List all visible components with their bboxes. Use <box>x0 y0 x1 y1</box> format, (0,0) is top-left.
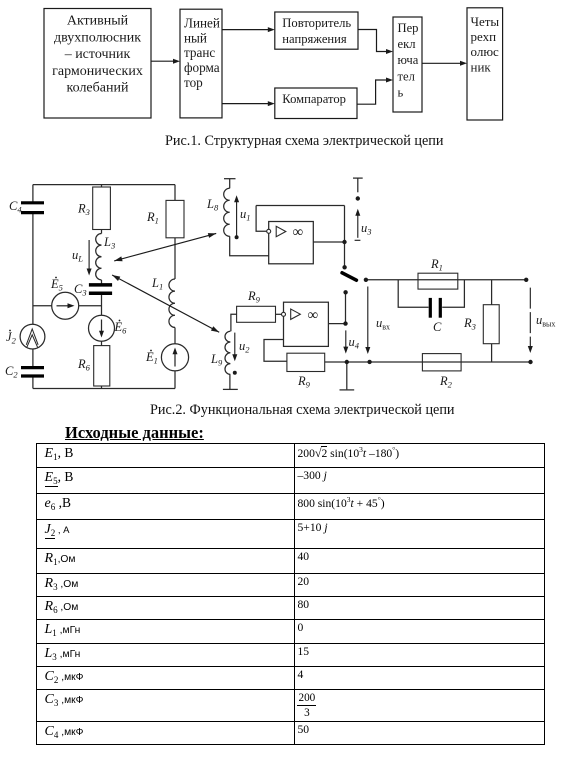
label u_out <box>536 313 555 329</box>
wire 3->5 <box>358 30 388 52</box>
label L9 <box>210 352 223 368</box>
arrow inside E1 <box>173 348 178 355</box>
wire arrow 5->6 <box>422 62 462 64</box>
svg-text:гармонических: гармонических <box>52 64 143 79</box>
block: voltage follower <box>275 12 358 49</box>
block: switch <box>393 17 422 112</box>
label R6 <box>77 357 91 373</box>
svg-text:двухполюсник: двухполюсник <box>54 31 141 46</box>
inductor L3 <box>96 234 102 280</box>
svg-text:uвх: uвх <box>376 316 390 332</box>
node dot u1 <box>235 235 239 239</box>
resistor R6 <box>94 346 110 386</box>
wire U1 feedback top <box>256 205 344 207</box>
svg-text:C4: C4 <box>9 199 22 215</box>
wire bottom rail left loop <box>33 388 175 390</box>
label C2 <box>5 364 18 380</box>
resistor R3 right <box>483 305 499 344</box>
wire arrow 2->3 <box>222 29 270 31</box>
label C3 <box>74 282 87 298</box>
wire R3 branch <box>491 280 493 362</box>
resistor R2 <box>422 354 461 371</box>
svg-text:R1: R1 <box>146 210 159 226</box>
svg-text:uвых: uвых <box>536 313 555 329</box>
ground under u4 node <box>340 362 355 390</box>
resistor R9 lower <box>287 353 325 371</box>
resistor R1 left <box>166 200 184 237</box>
label R3 left <box>77 202 90 218</box>
wire R9 to U2 input <box>276 313 282 315</box>
svg-text:uL: uL <box>72 248 83 264</box>
svg-text:E5: E5 <box>50 277 63 293</box>
wire E5 branch <box>33 305 102 307</box>
voltage arrow u2 <box>234 333 236 357</box>
svg-text:екл: екл <box>398 37 416 51</box>
svg-text:R1: R1 <box>430 257 443 273</box>
wire 4->5 <box>357 80 388 104</box>
svg-text:R9: R9 <box>247 289 261 305</box>
svg-text:Активный: Активный <box>67 14 129 29</box>
svg-text:u4: u4 <box>349 335 360 351</box>
node dot bottom right <box>528 360 532 364</box>
inductor L8 <box>224 188 230 236</box>
node dot bottom rail uvx <box>367 360 371 364</box>
node dot top right <box>524 278 528 282</box>
label L1 <box>151 276 163 292</box>
svg-text:форма: форма <box>184 60 220 75</box>
arrow inside E6 <box>99 331 104 338</box>
capacitor C2 <box>21 368 44 376</box>
caption fig 2 <box>150 402 455 419</box>
svg-text:∞: ∞ <box>293 225 304 241</box>
svg-text:Повторитель: Повторитель <box>282 16 351 30</box>
svg-text:Четы: Четы <box>471 14 500 29</box>
svg-text:C3: C3 <box>74 282 87 298</box>
arrow inside E5 <box>68 303 75 308</box>
ground under L9 <box>223 374 238 389</box>
label R9 lower <box>297 374 311 390</box>
svg-text:R2: R2 <box>439 374 453 390</box>
label L3 <box>103 235 115 251</box>
label uL <box>72 248 83 264</box>
svg-text:R3: R3 <box>77 202 90 218</box>
wire top rail left loop <box>33 184 175 186</box>
svg-text:ный: ный <box>184 30 207 45</box>
wire arrow 2->4 <box>222 103 270 105</box>
label u1 <box>240 207 251 223</box>
block: four-terminal network <box>467 8 503 120</box>
node dot switch lower contact <box>343 290 347 294</box>
label C right <box>433 320 442 334</box>
heading <box>65 423 204 443</box>
capacitor C <box>430 298 440 318</box>
wire bottom rail right <box>325 361 531 363</box>
current source J2 <box>20 324 45 349</box>
wire arrowheads fig1 <box>173 27 467 106</box>
wire output node up to switch contact <box>345 292 347 323</box>
label R1 left <box>146 210 159 226</box>
node dot bottom rail u4 <box>345 360 349 364</box>
wire node to switch <box>344 206 346 268</box>
svg-text:тор: тор <box>184 75 203 90</box>
switch blade <box>342 273 356 280</box>
label L8 <box>206 197 219 213</box>
svg-text:∞: ∞ <box>308 308 319 324</box>
label J2 <box>6 330 17 346</box>
label C4 <box>9 199 22 215</box>
coupling arrow M C3-L9 <box>112 275 219 332</box>
block: comparator <box>275 88 357 119</box>
wire middle branch <box>101 185 103 389</box>
label u2 <box>239 339 250 355</box>
svg-text:колебаний: колебаний <box>67 81 129 96</box>
block: linear transformer <box>180 9 222 118</box>
voltage arrow u1 <box>236 201 238 237</box>
infinity symbol U1 <box>293 225 304 241</box>
resistor R1 right <box>418 273 458 289</box>
wire U1 inverting input <box>256 206 267 232</box>
wire left branch <box>32 185 34 389</box>
svg-text:L9: L9 <box>210 352 223 368</box>
wire R9 to L9 <box>231 314 237 331</box>
terminal T of L8 <box>224 179 236 189</box>
svg-text:L1: L1 <box>151 276 163 292</box>
capacitor C3 <box>89 285 112 293</box>
source E5 <box>52 292 79 319</box>
node dot u2 <box>233 371 237 375</box>
terminal T of u3 <box>353 178 363 192</box>
svg-text:u2: u2 <box>239 339 250 355</box>
svg-text:R6: R6 <box>77 357 91 373</box>
inductor L9 <box>225 331 230 374</box>
wire U1 output <box>313 241 344 243</box>
label E1 <box>145 350 158 366</box>
svg-text:Линей: Линей <box>184 16 220 31</box>
source E6 <box>89 315 115 341</box>
wire arrow 1->2 <box>151 60 175 62</box>
svg-text:E1: E1 <box>145 350 158 366</box>
voltage arrow u_in <box>367 287 369 350</box>
label u4 <box>349 335 360 351</box>
svg-text:олюс: олюс <box>471 44 500 59</box>
block: active two-terminal source <box>44 9 151 119</box>
node dot U1 output <box>342 240 346 244</box>
voltage arrow u3 <box>355 212 361 241</box>
resistor R9 upper <box>237 306 276 322</box>
svg-text:– источник: – источник <box>64 47 131 62</box>
voltage arrow u_out <box>529 288 531 348</box>
node dot switch common <box>364 278 368 282</box>
inductor L1 <box>169 279 175 327</box>
svg-text:ь: ь <box>398 86 404 100</box>
svg-text:рехп: рехп <box>471 29 497 44</box>
svg-text:напряжения: напряжения <box>282 32 347 46</box>
label u_in <box>376 316 390 332</box>
svg-text:L3: L3 <box>103 235 115 251</box>
svg-text:R3: R3 <box>463 316 476 332</box>
wire L8 to op-amp U1 <box>230 236 269 256</box>
label R1 right <box>430 257 443 273</box>
label E5 <box>50 277 63 293</box>
svg-text:R9: R9 <box>297 374 311 390</box>
svg-text:C2: C2 <box>5 364 18 380</box>
svg-text:тел: тел <box>398 70 415 84</box>
coupling arrow M L3-L8 <box>114 233 216 261</box>
infinity symbol U2 <box>308 308 319 324</box>
wire U2 output <box>328 323 345 325</box>
label R9 upper <box>247 289 261 305</box>
svg-text:Компаратор: Компаратор <box>282 92 346 106</box>
svg-text:L8: L8 <box>206 197 219 213</box>
svg-text:J2: J2 <box>6 330 17 346</box>
svg-text:юча: юча <box>398 53 419 67</box>
capacitor C4 <box>21 203 44 213</box>
wire capacitor C bracket <box>398 280 464 308</box>
label u3 <box>361 221 372 237</box>
labels <box>5 197 555 390</box>
resistor R3 <box>93 187 111 230</box>
svg-text:C: C <box>433 320 442 334</box>
svg-text:ник: ник <box>471 59 492 74</box>
svg-text:E6: E6 <box>114 320 128 336</box>
voltage arrow u4 <box>345 330 347 349</box>
label R2 <box>439 374 453 390</box>
wire right branch <box>174 185 176 389</box>
node dot U2 output <box>343 321 347 325</box>
svg-text:Пер: Пер <box>398 21 419 35</box>
source E1 <box>161 344 188 371</box>
voltage arrow uL <box>88 240 90 271</box>
node dot u3 terminal <box>356 196 360 200</box>
svg-text:u1: u1 <box>240 207 251 223</box>
wire U2 noninverting to R9 lower <box>264 340 287 362</box>
op-amp U1 <box>267 222 314 264</box>
node dot switch top contact <box>342 265 346 269</box>
svg-text:u3: u3 <box>361 221 372 237</box>
wire top rail right <box>366 279 526 281</box>
label R3 right <box>463 316 476 332</box>
label E6 <box>114 320 128 336</box>
caption fig 1 <box>165 133 443 150</box>
svg-text:транс: транс <box>184 45 215 60</box>
op-amp U2 <box>282 302 329 346</box>
